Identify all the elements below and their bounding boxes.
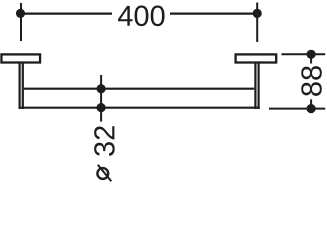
dimension label 400 (118, 6, 165, 27)
dimension 88 bottom leader line (269, 108, 325, 110)
rail bar bottom line (19, 107, 260, 109)
dimension 400 line left segment (21, 13, 112, 15)
diameter 32 dot on bar top (97, 84, 106, 93)
dimension 88 vertical line upper segment (310, 54, 312, 63)
dimension 88 endpoint dot top (307, 50, 316, 59)
dimension 88 top leader line (281, 53, 325, 55)
dimension 88 endpoint dot bottom (307, 104, 316, 113)
rail bar top line (24, 88, 254, 90)
diameter label 32 (rotated) (94, 126, 115, 156)
dimension 400 extension line left (20, 3, 22, 41)
wall plate left (1, 54, 40, 62)
post right (255, 64, 258, 110)
wall plate right (236, 54, 277, 62)
diameter symbol ø ring (97, 168, 108, 179)
dimension 400 line right segment (170, 13, 257, 15)
diameter symbol ø slash (98, 165, 112, 181)
dimension 400 endpoint dot right (253, 9, 262, 18)
post left (20, 64, 23, 110)
diameter 32 vertical line (100, 75, 102, 122)
dimension 400 endpoint dot left (16, 9, 25, 18)
diameter 32 dot on bar bottom (97, 103, 106, 112)
dimension 88 vertical line lower segment (310, 99, 312, 108)
dimension 400 extension line right (256, 3, 258, 43)
dimension label 88 (rotated) (301, 66, 322, 96)
